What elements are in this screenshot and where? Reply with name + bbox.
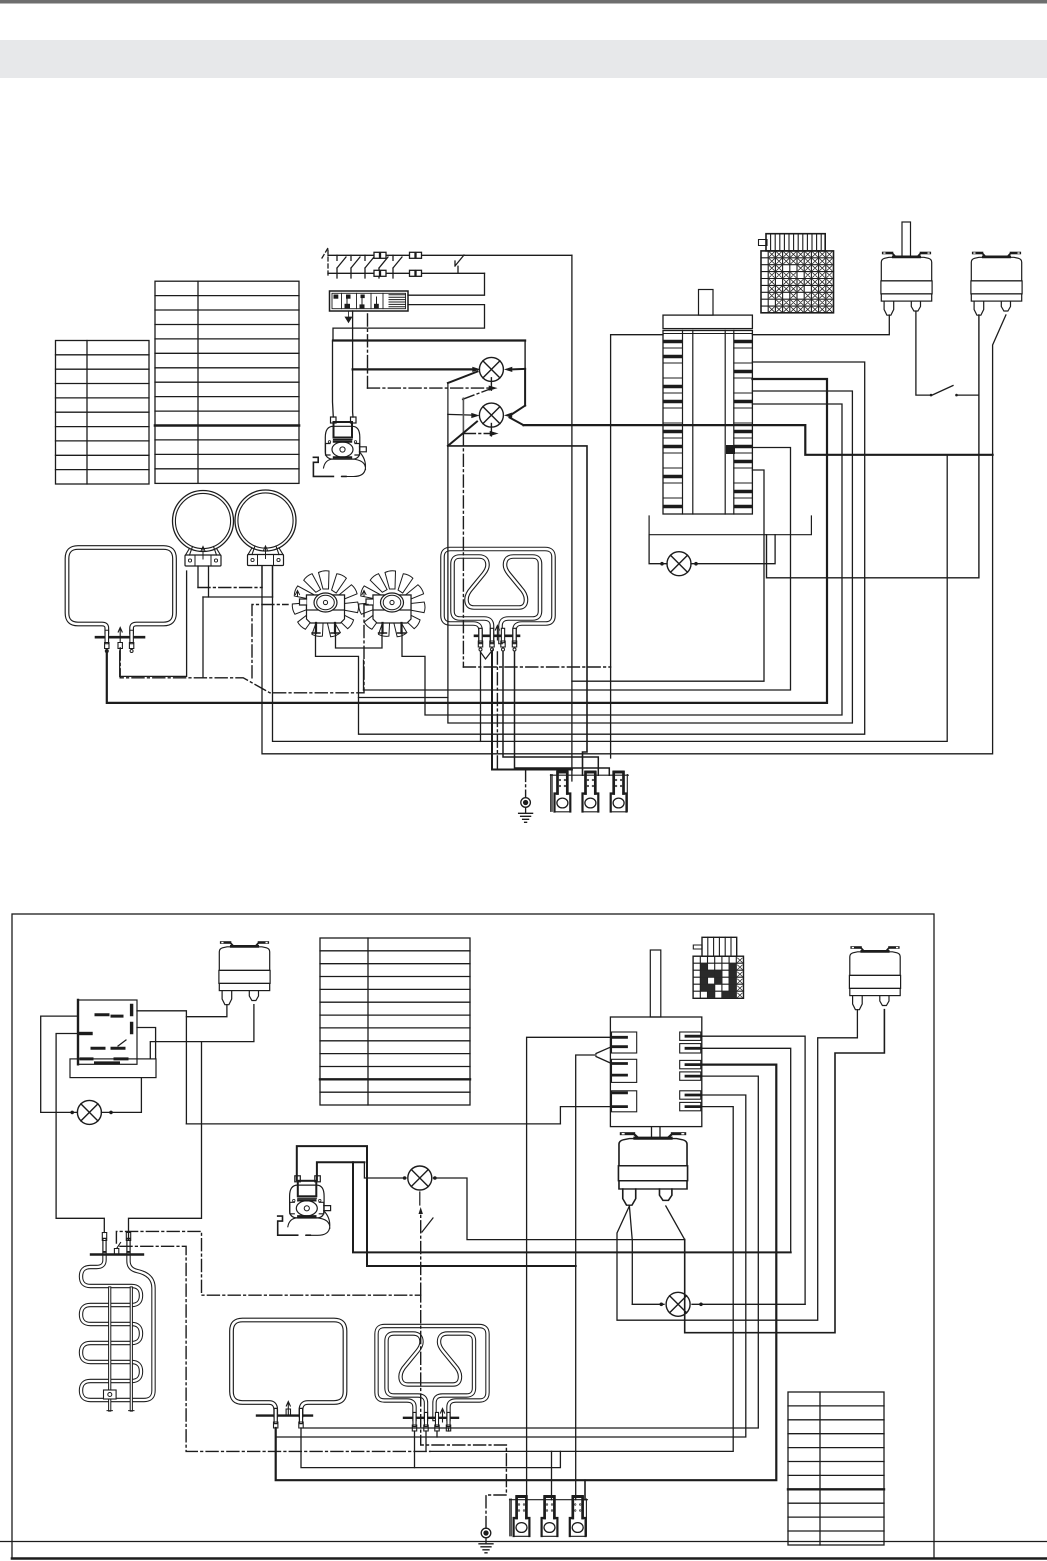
earth symbol B <box>479 1528 493 1553</box>
wire: lamp L2 slant to mid vertical <box>448 422 477 446</box>
wire: B3 right leg slant <box>666 1206 685 1240</box>
thermostat T1 (with shaft) <box>881 222 932 315</box>
lower oven element (rounded) <box>67 548 175 653</box>
wire: ring1 down to fan bus <box>316 631 448 698</box>
wire: element earth dash-dot <box>120 605 364 693</box>
wire: selector right stub 2, blower return <box>701 1048 791 1252</box>
thermostat B1 <box>219 941 270 1005</box>
wire: B2 right leg route <box>685 1010 885 1333</box>
wire: mid vertical to mains block pole 2 <box>448 446 587 775</box>
lamp B-L3 <box>632 1292 805 1316</box>
wire: x201 vertical to serpentine right pin <box>129 1042 202 1240</box>
wire: element B1 right pin down <box>301 1428 560 1468</box>
wire: selector left contact 3 stub <box>560 1107 611 1124</box>
indicator lamp L2 <box>448 369 993 455</box>
wire: relay left contact to serpentine left pin <box>56 1034 104 1233</box>
wire: dark bus element to selector stub <box>107 379 827 703</box>
wire: fan1 right to fan2 left bridge <box>336 633 383 648</box>
wire: B3 left leg to lamp B-L3 <box>629 1206 632 1304</box>
switch contact blade <box>932 386 953 396</box>
wire: blower feeds <box>333 341 354 417</box>
dash-dot: lamp B-L2 pilot arrow <box>419 1192 421 1205</box>
terminal block X1 <box>330 291 409 323</box>
wire: T2 left leg to selector base loop <box>767 315 979 578</box>
oven element B1 (rounded) <box>232 1320 346 1428</box>
gray band <box>0 40 1047 78</box>
multi-gang switch bank (dashed) <box>322 248 572 278</box>
wire: T1 right leg to switch contact <box>916 312 930 396</box>
legend table (bottom) <box>320 938 470 1105</box>
wire: selector left stub down <box>611 335 663 758</box>
wire: selector left bracket to block pin2 <box>596 1047 612 1064</box>
ring heating element 2 <box>235 490 296 566</box>
lamp pilot dash wires <box>368 378 498 436</box>
wire: blower left terminal to block <box>297 1146 576 1266</box>
diagram border box <box>12 914 934 1559</box>
blower motor B <box>278 1176 331 1236</box>
wire: long horizontal bus from relay area <box>186 1123 560 1125</box>
wire: selector left contact 1 to block pin1 <box>527 1037 612 1499</box>
dash-dot: serpentine to bottom-left bus <box>120 1246 430 1451</box>
bottom dark rule <box>12 1557 1047 1560</box>
wire: fan2 right to selector stub <box>402 404 842 715</box>
lamp B-L1 <box>41 1016 142 1124</box>
wire: switch bottom row to block <box>408 273 485 295</box>
wire: B2 left leg long route <box>617 1010 857 1320</box>
legend table right <box>155 281 299 483</box>
lamp L3 <box>649 535 775 576</box>
wire: ring2 to T2 buses <box>262 315 1006 754</box>
top dark bar <box>0 0 1047 4</box>
oven fan motor 2 <box>359 571 426 638</box>
wire: T1 left leg to selector <box>752 315 889 335</box>
full width rule <box>0 1541 1047 1543</box>
oven fan motor 1 <box>292 571 359 638</box>
earth symbol (top diagram) <box>519 798 533 823</box>
thermostat T2 <box>971 252 1022 316</box>
wire: selector right stub 1 to lamp B-L3 <box>701 1036 805 1304</box>
grill element (dual loop) <box>443 549 554 659</box>
indicator lamp L1 <box>333 341 525 382</box>
wire: element U-loop <box>120 571 187 676</box>
selector switch B <box>610 950 701 1127</box>
program grid (bottom, with dark cells) <box>693 937 743 998</box>
wire: blower right terminal to lamp B-L2 / selector <box>317 1162 365 1180</box>
legend table bottom-right <box>788 1392 884 1545</box>
wire: block right pin loop <box>333 305 485 341</box>
wire: selector shaft to B3 <box>652 1127 661 1138</box>
wire: dark stub to block pin3 <box>584 1480 586 1500</box>
wire: block pins down <box>352 311 354 369</box>
thermostat B2 (right) <box>849 946 900 1010</box>
mains terminal block (top diagram) <box>550 771 628 812</box>
wire: selector right stub 4 to element B2 pin4 <box>301 1076 758 1428</box>
wire: switch top row to outer right bus <box>571 255 573 781</box>
wire: relay to B1 left leg, down to long bus <box>137 1011 186 1124</box>
program chart grid (top) <box>759 234 834 313</box>
serpentine heating element <box>81 1233 154 1411</box>
wire: selector right stub 5 <box>276 1095 746 1437</box>
wire: y1451 phase to block pin2 <box>551 1451 553 1499</box>
thermostat B3 (below selector) <box>618 1132 687 1205</box>
dash-dot: lamp area down to mid bus <box>462 434 464 668</box>
ring element wiring <box>198 566 273 678</box>
wire: mid bus <box>364 448 791 691</box>
cooling blower motor <box>313 417 366 477</box>
lamp B-L2 <box>364 1162 684 1239</box>
mains terminal block B <box>510 1495 588 1536</box>
dash-dot: serpentine earth long route to earth B <box>116 1231 506 1528</box>
ring heating element 1 <box>173 491 234 567</box>
wire: bottom bus to selector right stub 6 <box>430 1107 733 1452</box>
wire: grill pins to mains block <box>492 652 572 770</box>
selector switch (multi-bank) <box>649 290 811 535</box>
wire: selector right stub 3, dark bus to element B1 left <box>276 1065 777 1481</box>
oven element B2 (dual loop grill) <box>377 1326 488 1431</box>
wire: lamp vertical bus to selector stub <box>448 391 853 723</box>
energy regulator (relay) <box>70 1000 156 1078</box>
legend table left <box>56 341 150 485</box>
wire: grill earth dash-dot <box>497 652 525 797</box>
